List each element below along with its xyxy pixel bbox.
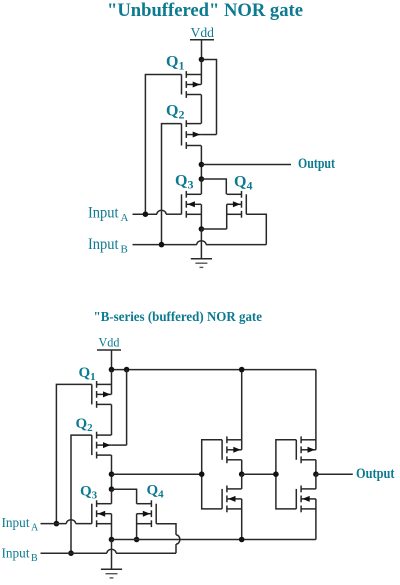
svg-text:B: B	[121, 243, 128, 255]
svg-text:Output: Output	[298, 156, 335, 172]
svg-text:A: A	[31, 523, 39, 534]
svg-text:Q1: Q1	[166, 54, 184, 73]
svg-text:Q4: Q4	[147, 483, 165, 501]
svg-text:Q2: Q2	[166, 103, 184, 122]
svg-text:A: A	[121, 212, 129, 224]
svg-text:B: B	[31, 553, 38, 564]
svg-text:Q3: Q3	[80, 484, 98, 502]
svg-text:Vdd: Vdd	[191, 25, 215, 40]
svg-text:Input: Input	[2, 546, 30, 561]
svg-text:Q2: Q2	[76, 416, 94, 434]
svg-text:Input: Input	[88, 236, 119, 253]
svg-text:"B-series (buffered) NOR gate: "B-series (buffered) NOR gate	[94, 309, 263, 324]
svg-text:Q1: Q1	[79, 365, 96, 383]
svg-text:Q4: Q4	[234, 174, 252, 193]
svg-text:Q3: Q3	[175, 173, 193, 192]
svg-text:Output: Output	[356, 466, 395, 482]
svg-text:Vdd: Vdd	[99, 336, 121, 350]
svg-text:Input: Input	[2, 515, 30, 530]
svg-text:Input: Input	[88, 205, 119, 222]
svg-text:"Unbuffered" NOR gate: "Unbuffered" NOR gate	[107, 1, 303, 21]
